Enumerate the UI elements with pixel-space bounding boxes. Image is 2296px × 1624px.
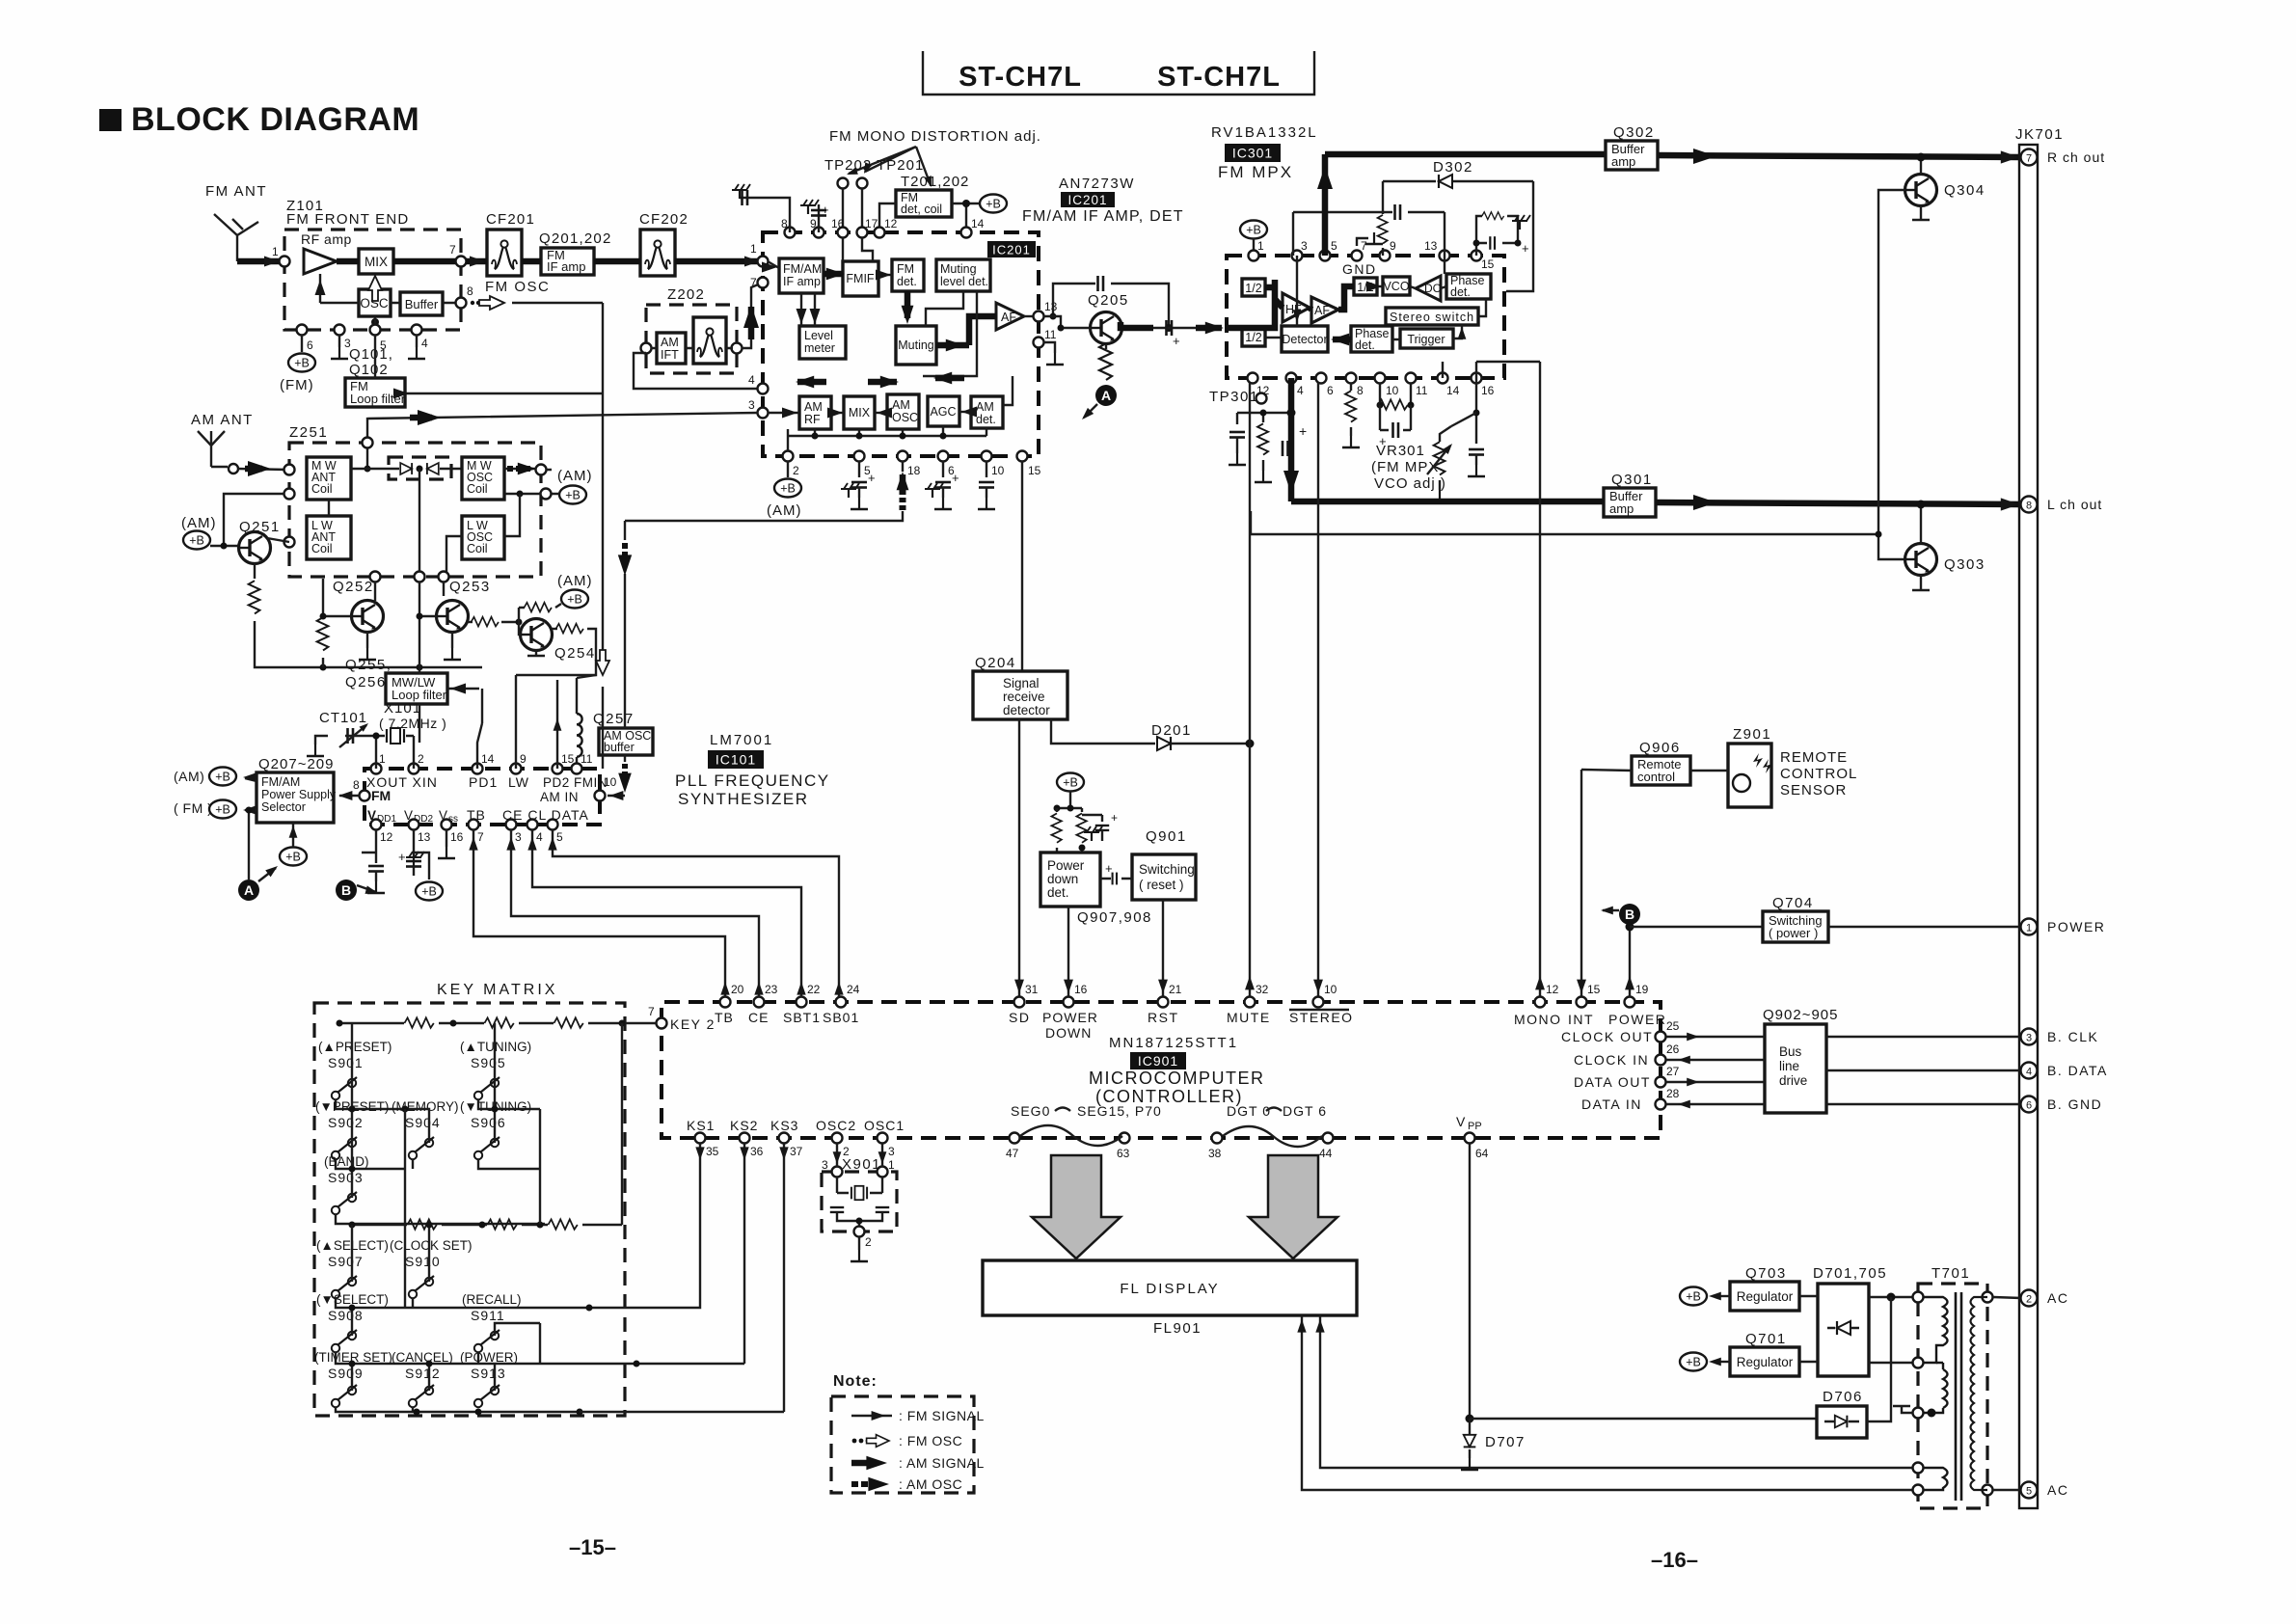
svg-text:7: 7 xyxy=(2026,153,2032,165)
crystal X101 xyxy=(387,728,404,744)
svg-text:: AM OSC: : AM OSC xyxy=(899,1476,962,1492)
svg-text:Coil: Coil xyxy=(467,542,488,555)
KEY2 pin 7 xyxy=(657,1018,667,1029)
svg-text:+: + xyxy=(398,850,406,864)
wire Z251 pin2 to left rail xyxy=(224,494,284,546)
svg-text:Q701: Q701 xyxy=(1745,1331,1787,1347)
header box xyxy=(923,51,1314,95)
svg-text:FM MONO DISTORTION adj.: FM MONO DISTORTION adj. xyxy=(829,128,1041,145)
svg-text:13: 13 xyxy=(1044,300,1058,313)
Q303 emitter stub xyxy=(1912,575,1930,590)
svg-text:5: 5 xyxy=(556,830,563,844)
wires IC101 TB/CE/CL/DATA down to IC901 pins xyxy=(473,829,725,997)
svg-text:10: 10 xyxy=(991,464,1005,477)
D201 diode xyxy=(1157,737,1171,750)
svg-text:(AM): (AM) xyxy=(181,515,217,531)
wire CF202 to IC201 pin1 (thick) xyxy=(675,258,763,265)
svg-text:+: + xyxy=(1522,241,1529,256)
svg-text:24: 24 xyxy=(847,983,860,996)
big hatched arrow SEG to FL xyxy=(1032,1155,1121,1259)
cap at pin16 branch xyxy=(1475,378,1477,444)
svg-text:Q255,: Q255, xyxy=(345,657,392,673)
svg-text:15: 15 xyxy=(1481,257,1495,271)
thick arrows above AM row xyxy=(797,379,826,386)
svg-text:14: 14 xyxy=(971,217,985,230)
wire IC301 pin16 to MONO xyxy=(1539,362,1541,998)
Q253 output resistor to Q254 xyxy=(468,621,473,623)
svg-text:: FM OSC: : FM OSC xyxy=(899,1433,962,1448)
svg-text:4: 4 xyxy=(536,830,543,844)
svg-text:FL901: FL901 xyxy=(1153,1320,1202,1337)
svg-text:22: 22 xyxy=(807,983,821,996)
D302 diode xyxy=(1383,181,1533,291)
HF triangle xyxy=(1283,293,1310,322)
svg-text:+: + xyxy=(868,471,876,485)
svg-text:1/2: 1/2 xyxy=(1245,282,1261,295)
svg-text:PLL FREQUENCY: PLL FREQUENCY xyxy=(675,771,830,790)
Q906 Remote control box xyxy=(1632,756,1690,785)
T201 FM det coil box xyxy=(896,190,952,217)
Z101 dashed box xyxy=(284,230,461,330)
svg-text:11: 11 xyxy=(1044,328,1057,341)
svg-text:19: 19 xyxy=(1635,983,1649,996)
wire OSC2 OSC1 to X901 xyxy=(836,1144,838,1167)
Q304 emitter stub xyxy=(1912,205,1930,220)
svg-text:RF: RF xyxy=(804,413,821,426)
svg-text:B: B xyxy=(341,882,351,898)
svg-text:A: A xyxy=(244,882,254,898)
wire LW OSC coil left side xyxy=(446,536,462,577)
svg-text:Q301: Q301 xyxy=(1611,472,1653,488)
svg-text:R ch out: R ch out xyxy=(2047,149,2105,165)
svg-text:Level: Level xyxy=(804,329,833,342)
wire power down det to pin16 xyxy=(1067,907,1069,998)
svg-text:AM ANT: AM ANT xyxy=(191,412,254,428)
svg-text:(▲PRESET): (▲PRESET) xyxy=(318,1040,392,1054)
Z251 left pin (LW) xyxy=(284,537,295,548)
TP202 test point xyxy=(838,178,849,189)
wire Z202 right to IC201 pin7 (thick up arrow) xyxy=(742,283,763,348)
IC301 black tag xyxy=(1225,144,1281,162)
svg-text:FM: FM xyxy=(371,788,391,803)
svg-text:PP: PP xyxy=(1468,1121,1482,1132)
svg-text:AM IN: AM IN xyxy=(540,790,579,804)
svg-text:Q906: Q906 xyxy=(1639,740,1681,756)
transistor Q254 xyxy=(521,619,553,651)
svg-text:A: A xyxy=(1101,388,1111,403)
SEG bus brace curve xyxy=(1020,1125,1122,1146)
svg-text:SB01: SB01 xyxy=(823,1010,859,1025)
1/2 box C xyxy=(1354,278,1377,295)
svg-text:det.: det. xyxy=(897,275,917,288)
svg-text:47: 47 xyxy=(1006,1147,1019,1160)
IC901 microcomputer dashed outline xyxy=(662,1002,1661,1138)
+B at Q703 xyxy=(1680,1287,1707,1306)
wire Z251 pin to Q253 xyxy=(419,582,444,667)
svg-text:det.: det. xyxy=(1450,285,1471,299)
thick line pin4 down to L ch line xyxy=(1288,378,1295,501)
coupling cap between boxes xyxy=(1100,878,1132,880)
FM/AM Power Supply Selector box xyxy=(257,772,334,823)
wire VDD1 down caps xyxy=(362,829,376,863)
Stereo switch box xyxy=(1386,308,1478,325)
svg-text:Regulator: Regulator xyxy=(1737,1355,1794,1369)
svg-text:PD1: PD1 xyxy=(469,774,498,790)
wire TP201 down to pin17 xyxy=(861,188,863,232)
svg-text:2: 2 xyxy=(865,1235,872,1249)
IC101 bottom pins 12 13 16 7 3 4 5 xyxy=(371,820,382,830)
+B below VDD2 xyxy=(416,882,443,901)
wire LW up xyxy=(515,675,517,769)
wire AM OSC to MIX xyxy=(875,412,887,414)
IC201 pin 13 xyxy=(1034,311,1044,322)
D706 diode box xyxy=(1817,1406,1867,1438)
wire pin5 to loop filter xyxy=(374,335,376,378)
wire switching reset to pin21 xyxy=(1162,900,1164,998)
svg-text:Coil: Coil xyxy=(311,542,333,555)
B node marker (lower) xyxy=(336,880,357,901)
wire AM det to AGC xyxy=(959,411,971,413)
IC101 dashed box xyxy=(365,769,600,825)
svg-text:S907: S907 xyxy=(328,1254,364,1269)
svg-text:2: 2 xyxy=(2026,1294,2032,1306)
svg-text:buffer: buffer xyxy=(604,741,635,754)
svg-text:: AM SIGNAL: : AM SIGNAL xyxy=(899,1455,985,1471)
svg-text:31: 31 xyxy=(1025,983,1039,996)
wire TP202 down to pin16 xyxy=(842,188,844,232)
resistor below pin8 xyxy=(1350,383,1352,391)
legend AM SIGNAL xyxy=(851,1460,876,1467)
svg-text:FM OSC: FM OSC xyxy=(485,279,550,295)
svg-text:Q304: Q304 xyxy=(1944,182,1985,199)
svg-text:3: 3 xyxy=(2026,1033,2032,1044)
junction dot Vpp line xyxy=(1466,1415,1474,1423)
svg-text:BLOCK DIAGRAM: BLOCK DIAGRAM xyxy=(131,101,419,138)
+B above IC301 pin1 xyxy=(1240,221,1267,239)
1/2 box B xyxy=(1242,328,1265,346)
OSC box Z101 xyxy=(359,289,391,316)
note legend dashed box xyxy=(831,1396,974,1493)
MIX box IC201 xyxy=(844,396,875,429)
terminal 6 B.GND xyxy=(2021,1096,2038,1113)
pin 7 of Z101 xyxy=(456,257,467,267)
IC101 black tag xyxy=(708,750,764,769)
FM Loop filter box xyxy=(345,378,405,407)
AGC box xyxy=(928,396,959,426)
svg-text:35: 35 xyxy=(706,1145,719,1158)
Q701 Regulator box xyxy=(1730,1347,1799,1376)
svg-text:L ch out: L ch out xyxy=(2047,497,2102,512)
wire Detector to Phase det lower (thick) xyxy=(1333,337,1351,343)
Switching reset box xyxy=(1132,854,1196,900)
wire T701 to AC terminal 5 xyxy=(1993,1489,2021,1491)
svg-text:INT: INT xyxy=(1568,1012,1594,1027)
wire loop filter input xyxy=(419,667,479,689)
AM antenna xyxy=(198,431,225,467)
wire VDD2 down electrolytic cap xyxy=(413,829,415,858)
svg-text:DC: DC xyxy=(1424,282,1442,295)
wire AM IFT to filter xyxy=(651,347,733,349)
wire Z251 pin to Q252 collector xyxy=(374,582,376,601)
svg-text:1: 1 xyxy=(888,1158,895,1172)
svg-text:Z901: Z901 xyxy=(1733,726,1771,743)
svg-text:AC: AC xyxy=(2047,1290,2068,1306)
svg-text:Coil: Coil xyxy=(467,482,488,496)
IC201 pin 7 xyxy=(758,278,769,288)
select row resistors xyxy=(407,1219,436,1229)
svg-text:12: 12 xyxy=(380,830,393,844)
wire T701 to AC terminal 2 xyxy=(1993,1297,2021,1298)
svg-text:14: 14 xyxy=(481,752,495,766)
svg-text:drive: drive xyxy=(1779,1073,1807,1088)
svg-text:13: 13 xyxy=(1424,239,1438,253)
svg-text:Selector: Selector xyxy=(261,800,306,814)
AM det box xyxy=(971,396,1003,428)
svg-text:B: B xyxy=(1625,907,1634,922)
FL DISPLAY box xyxy=(983,1260,1357,1315)
JK701 connector strip xyxy=(2019,145,2038,1508)
svg-text:IC101: IC101 xyxy=(716,752,756,768)
IC201 pin 1 xyxy=(758,257,769,267)
wire Z202 left down to pin4 line xyxy=(634,353,763,389)
wires IC901 to bus line drive xyxy=(1666,1037,1765,1104)
IC901 black tag xyxy=(1130,1052,1186,1069)
caps and resistor left of pin 4 xyxy=(1237,413,1291,424)
Q301 Buffer amp box xyxy=(1604,488,1656,517)
svg-text:8: 8 xyxy=(353,778,360,792)
svg-text:X101: X101 xyxy=(384,700,421,717)
svg-text:Q901: Q901 xyxy=(1146,828,1187,845)
svg-text:7: 7 xyxy=(750,276,757,289)
svg-text:Power Supply: Power Supply xyxy=(261,788,337,801)
svg-text:10: 10 xyxy=(1386,384,1399,397)
transistor Q304 xyxy=(1905,175,1937,206)
wire FM ANT to Z101 pin1 (thick) xyxy=(237,258,282,265)
Q302 Buffer amp box xyxy=(1606,141,1658,170)
svg-text:Q303: Q303 xyxy=(1944,556,1985,573)
svg-text:(POWER): (POWER) xyxy=(460,1350,518,1365)
svg-text:18: 18 xyxy=(907,464,921,477)
svg-text:(CANCEL): (CANCEL) xyxy=(392,1350,453,1365)
pin 1 of Z101 xyxy=(280,257,290,267)
gnd stub pin7 xyxy=(1357,238,1368,246)
AM signal line Z251 top to IC201 pin3 (thick arrow) xyxy=(367,413,758,443)
leader arrows from adj label xyxy=(849,147,931,185)
svg-text:6: 6 xyxy=(307,338,313,352)
svg-text:( reset ): ( reset ) xyxy=(1139,878,1184,892)
Vpp wire down xyxy=(1469,1144,1471,1419)
wire pin13 to Q205 base xyxy=(1043,316,1091,328)
svg-text:level det.: level det. xyxy=(940,275,988,288)
wire pin 14 16 loop to top xyxy=(1443,362,1476,378)
svg-text:3: 3 xyxy=(748,398,755,412)
svg-text:16: 16 xyxy=(450,830,464,844)
Q703 Regulator box xyxy=(1730,1282,1799,1311)
svg-text:KS1: KS1 xyxy=(687,1118,715,1133)
svg-text:3: 3 xyxy=(822,1158,828,1172)
IC201 bottom pins 2 5 18 6 10 15 xyxy=(783,451,794,462)
svg-text:Q902~905: Q902~905 xyxy=(1763,1007,1838,1023)
RF amp triangle xyxy=(304,249,337,274)
+B below selector xyxy=(280,848,307,866)
svg-text:( 7.2MHz ): ( 7.2MHz ) xyxy=(379,716,446,731)
X901 caps xyxy=(830,1207,844,1212)
svg-text:1: 1 xyxy=(1257,239,1264,253)
wire 1/2B to detector xyxy=(1265,256,1297,338)
svg-text:3: 3 xyxy=(515,830,522,844)
wire bridge to T701 xyxy=(1869,1296,1918,1298)
svg-text:1/2: 1/2 xyxy=(1245,331,1261,344)
svg-text:PD2 FMIN: PD2 FMIN xyxy=(543,775,608,790)
AF triangle IC301 xyxy=(1311,297,1338,323)
svg-text:Q252: Q252 xyxy=(333,579,374,595)
diode pair symbols xyxy=(400,463,412,474)
pot between pins 10 and 11 xyxy=(1380,383,1411,405)
svg-text:AM: AM xyxy=(661,336,679,349)
wire 1/2C-VCO-DC-Phase det xyxy=(1377,286,1446,288)
Vss gnd xyxy=(446,829,447,847)
svg-text:44: 44 xyxy=(1319,1147,1333,1160)
LW ANT Coil box xyxy=(307,516,351,559)
IC201 dashed box xyxy=(763,232,1039,456)
FM IF amp box xyxy=(541,248,594,275)
Phase det box (upper) xyxy=(1446,274,1491,299)
svg-text:KS3: KS3 xyxy=(770,1118,798,1133)
IC201 pin 4 xyxy=(758,384,769,394)
svg-text:Q204: Q204 xyxy=(975,655,1016,671)
T701 core xyxy=(1955,1292,1958,1501)
gnd at pin 11 xyxy=(1043,342,1055,353)
IC901 bottom pins KS1 KS2 KS3 OSC2 OSC1 xyxy=(695,1133,706,1144)
wire Q205 collector to +cap to IC301 pin2 (thick) xyxy=(1121,322,1153,328)
svg-text:8: 8 xyxy=(1357,384,1364,397)
svg-text:Detector: Detector xyxy=(1282,333,1327,346)
internal bus line IC201 bottom xyxy=(788,426,986,436)
svg-text:7: 7 xyxy=(477,830,484,844)
svg-text:AC: AC xyxy=(2047,1482,2068,1498)
terminal 3 B.CLK xyxy=(2021,1029,2038,1045)
wire HF/AF internal thick path xyxy=(1227,280,1283,328)
svg-text:5: 5 xyxy=(2026,1486,2032,1498)
svg-text:FL DISPLAY: FL DISPLAY xyxy=(1120,1281,1219,1297)
svg-text:( FM ): ( FM ) xyxy=(174,800,212,816)
svg-text:det, coil: det, coil xyxy=(901,203,942,216)
cap at pin10 xyxy=(986,461,987,477)
svg-text:meter: meter xyxy=(804,341,835,355)
svg-text:FM FRONT END: FM FRONT END xyxy=(286,211,409,228)
svg-text:Q102: Q102 xyxy=(349,362,389,378)
svg-text:AM: AM xyxy=(804,400,823,414)
svg-text:4: 4 xyxy=(1297,384,1304,397)
svg-text:KEY MATRIX: KEY MATRIX xyxy=(437,982,557,998)
Q704 Switching power box xyxy=(1763,911,1828,942)
CT101 trimmer cap xyxy=(348,728,354,744)
svg-text:5: 5 xyxy=(1331,239,1337,253)
svg-text:SD: SD xyxy=(1009,1010,1030,1025)
D701-705 bridge rectifier box xyxy=(1818,1284,1869,1376)
svg-text:(FM): (FM) xyxy=(280,377,314,393)
svg-text:4: 4 xyxy=(421,337,428,350)
diode pair dashed box xyxy=(389,457,451,479)
Power down det box xyxy=(1040,853,1100,907)
svg-text:T701: T701 xyxy=(1931,1265,1970,1282)
junction dot MUTE line xyxy=(1246,740,1255,748)
matrix column verticals xyxy=(405,1023,622,1364)
svg-text:STEREO: STEREO xyxy=(1289,1010,1354,1025)
svg-text:det.: det. xyxy=(1047,885,1069,900)
wire AM RF to MIX xyxy=(831,412,844,414)
resistor above pin9 xyxy=(1382,181,1384,256)
wire Q304 base line down xyxy=(1878,190,1905,559)
wire from FM +B rail down to A xyxy=(248,810,250,880)
Q254 collector gnd xyxy=(527,650,545,656)
wire pin3 to AM RF xyxy=(768,412,799,414)
AM OSC dotted line down right side xyxy=(624,521,626,728)
IC301 top pins 1 3 5 7 9 13 15 xyxy=(1249,251,1259,261)
wire PD1 up to loop filter xyxy=(477,723,482,769)
svg-text:line: line xyxy=(1779,1059,1799,1073)
svg-text:GND: GND xyxy=(1342,261,1377,277)
wire Remote to INT xyxy=(1580,770,1582,998)
svg-text:12: 12 xyxy=(1546,983,1559,996)
svg-text:RV1BA1332L: RV1BA1332L xyxy=(1211,124,1318,141)
svg-text:Z202: Z202 xyxy=(667,286,705,303)
wire MW OSC coil to +B pin xyxy=(504,493,541,495)
wire D706 up to bridge output xyxy=(1867,1297,1891,1421)
wire Muting level det down to Muting xyxy=(926,291,963,326)
svg-text:S909: S909 xyxy=(328,1366,364,1381)
svg-text:CLOCK IN: CLOCK IN xyxy=(1574,1052,1649,1068)
svg-text:IF amp: IF amp xyxy=(783,275,821,288)
A node marker (near Q205) xyxy=(1095,385,1117,406)
thick R ch line IC301 to JK701 xyxy=(1325,151,1606,158)
TP301 test point xyxy=(1256,393,1267,404)
Trigger box xyxy=(1400,329,1453,348)
wire T201 right to pin14 and +B xyxy=(952,203,980,232)
svg-text:D706: D706 xyxy=(1823,1389,1863,1405)
svg-text:OSC1: OSC1 xyxy=(864,1118,905,1133)
terminal 4 B.DATA xyxy=(2021,1063,2038,1079)
A marker arrow xyxy=(258,868,276,881)
svg-text:7: 7 xyxy=(449,243,456,257)
wire B down to POWER wire xyxy=(1629,925,1631,997)
svg-text:S902: S902 xyxy=(328,1115,364,1130)
IC201 top pins 8 9 16 17 12 14 xyxy=(785,228,796,238)
IC901 top pins TB CE SBTI SBOI xyxy=(720,997,731,1008)
Z202 filter element xyxy=(693,317,726,364)
X901 pin 2 xyxy=(854,1227,865,1237)
svg-text:CT101: CT101 xyxy=(319,710,367,726)
svg-text:(AM): (AM) xyxy=(174,769,204,784)
svg-text:Q201,202: Q201,202 xyxy=(539,230,612,247)
svg-text:Q254: Q254 xyxy=(554,645,596,662)
transistor Q251 xyxy=(239,532,271,564)
wire POWER line to terminal 1 xyxy=(1630,926,2021,928)
wire IC201 pin15 down to Q204 xyxy=(1021,461,1023,671)
MW OSC Coil box xyxy=(462,457,504,500)
svg-text:det.: det. xyxy=(976,413,996,426)
+B (AM) below pin2 xyxy=(774,479,801,498)
svg-text:det.: det. xyxy=(1355,338,1375,352)
FM antenna xyxy=(214,214,258,261)
wire matrix to KS3 xyxy=(580,1144,784,1412)
wire pin7 to CF201 (thick) xyxy=(466,258,487,265)
wire Q906 to INT line xyxy=(1581,770,1632,771)
DC triangle xyxy=(1416,276,1441,301)
svg-text:D707: D707 xyxy=(1485,1434,1526,1450)
AM OSC dashed arrow up into pin18 xyxy=(900,474,906,487)
Z202 right pin xyxy=(732,343,743,354)
